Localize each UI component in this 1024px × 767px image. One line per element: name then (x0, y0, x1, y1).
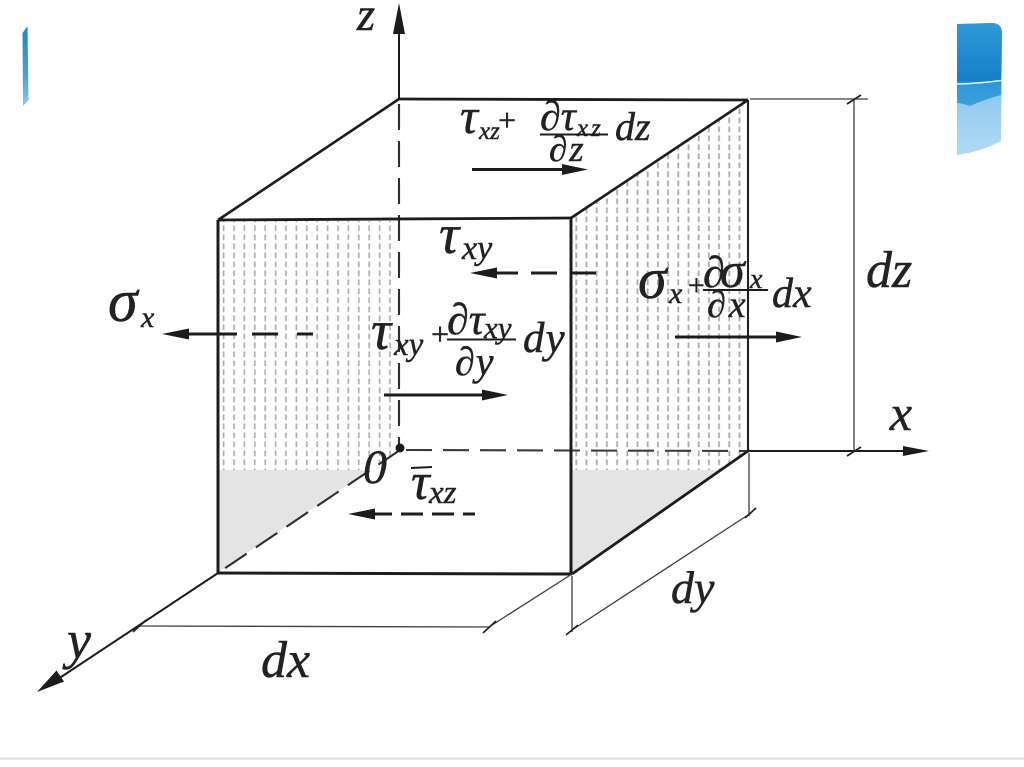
svg-text:xy: xy (461, 230, 493, 267)
svg-text:dz: dz (615, 104, 651, 149)
sigma-x + dsigma arrow (right) (675, 336, 780, 339)
origin dot (396, 444, 405, 453)
svg-text:τ: τ (371, 300, 393, 362)
x-axis (748, 450, 906, 452)
svg-text:x: x (140, 301, 155, 334)
svg-text:dx: dx (772, 271, 812, 317)
svg-text:x: x (668, 277, 683, 310)
svg-text:z: z (356, 0, 375, 41)
dx extension line from front-bottom-right corner (489, 574, 572, 627)
y-axis dashed hidden edge (218, 450, 400, 573)
dx tick right (483, 621, 496, 633)
z-axis (398, 31, 400, 99)
svg-text:dx: dx (261, 632, 310, 689)
hatched left x-face of cube (218, 221, 400, 470)
dy tick lower (566, 625, 578, 635)
dz dimension line (853, 99, 855, 451)
bottom light blue line (0, 758, 1024, 760)
tau-bar-xz dashed arrow (left) (348, 509, 375, 520)
svg-text:σ: σ (638, 246, 669, 311)
cube edge front-bottom (218, 573, 572, 574)
dy extension line upper (748, 453, 750, 516)
blue ribbon decoration top right (957, 23, 1002, 155)
dy dimension line (572, 513, 751, 630)
svg-text:x: x (889, 385, 912, 441)
dy tick upper (745, 508, 756, 518)
dx tick left (133, 620, 146, 632)
cube edge bottom-right diagonal (572, 451, 748, 574)
svg-text:xz: xz (428, 475, 457, 511)
tau-xy dashed arrow (left) (470, 268, 497, 279)
cube edge top-back (399, 99, 748, 100)
svg-text:∂τ: ∂τ (447, 295, 487, 344)
svg-text:y: y (62, 610, 91, 670)
dy extension line lower (571, 576, 573, 632)
gray shading lower left face (219, 470, 369, 572)
cube edge top-left diagonal (218, 99, 399, 220)
sigma-x arrow (left, solid then dashed) (162, 329, 189, 340)
dx dimension line (139, 626, 489, 627)
svg-text:dy: dy (671, 562, 715, 613)
cube edge top-right diagonal (571, 100, 748, 218)
svg-text:dy: dy (523, 315, 566, 362)
cube edge front-right vertical (570, 218, 573, 574)
dz extension line (750, 98, 868, 100)
tau-xy + dtau arrow (right) (384, 394, 486, 397)
x-axis dashed hidden edge (406, 450, 748, 451)
cube edge front-left vertical (217, 220, 220, 573)
cube edge back-right vertical (747, 100, 749, 451)
svg-text:0: 0 (363, 441, 387, 494)
svg-text:dz: dz (866, 242, 912, 299)
y-axis (52, 573, 218, 683)
tau-xz top arrow (right) (472, 168, 566, 171)
svg-text:τ: τ (460, 88, 480, 144)
blue left bar decoration (23, 26, 29, 106)
hatched right x-face of cube (571, 100, 749, 470)
dz tick top (847, 95, 861, 104)
svg-text:∂x: ∂x (707, 284, 749, 326)
cube edge front-top (218, 218, 571, 220)
svg-text:σ: σ (108, 268, 140, 334)
gray shading lower right face (572, 470, 721, 573)
svg-text:xy: xy (393, 327, 424, 363)
dz tick bottom (847, 447, 861, 456)
svg-text:∂z: ∂z (549, 129, 586, 170)
svg-text:+: + (496, 102, 518, 138)
z-axis dashed hidden edge (398, 104, 400, 446)
svg-text:∂y: ∂y (455, 339, 495, 384)
svg-text:τ: τ (439, 204, 461, 266)
